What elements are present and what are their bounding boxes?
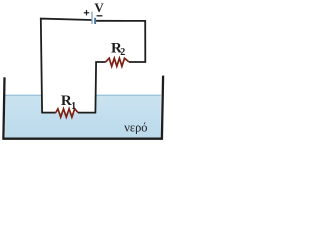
svg-text:V: V bbox=[94, 0, 104, 15]
battery V: long positive plate bbox=[91, 12, 92, 24]
battery V: short negative plate bbox=[94, 18, 96, 24]
tank (beaker) walls bbox=[3, 76, 163, 139]
label - (battery negative) bbox=[97, 15, 103, 17]
water surface line bbox=[5, 95, 161, 96]
wire: top-right segment from battery - terminal + right vertical + R2 right stub bbox=[96, 21, 145, 62]
resistor R1 zigzag bbox=[56, 109, 78, 117]
svg-text:2: 2 bbox=[120, 47, 125, 58]
svg-text:1: 1 bbox=[71, 101, 76, 112]
wire: R2 left stub + middle vertical down into water bbox=[95, 62, 105, 113]
wire: R1 right stub bbox=[78, 112, 96, 114]
label + (battery positive) bbox=[84, 10, 89, 15]
wire: R1 left stub bbox=[41, 112, 56, 114]
wire: left vertical + top-left segment to battery + terminal bbox=[41, 19, 92, 113]
resistor R2 zigzag bbox=[106, 58, 129, 66]
svg-text:νερό: νερό bbox=[124, 121, 147, 135]
water (νερό) in tank bbox=[5, 95, 161, 138]
white region enclosed by R1 electrode wires bbox=[41, 94, 96, 113]
